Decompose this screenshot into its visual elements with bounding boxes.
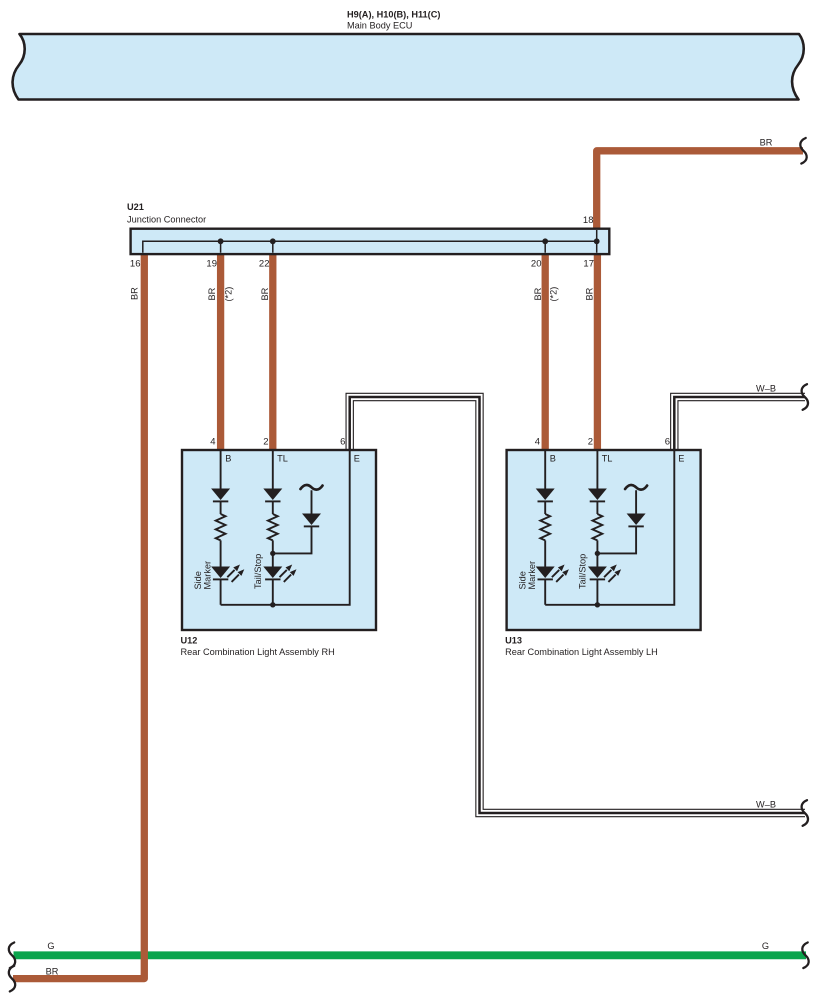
LED TL (tail/stop)	[263, 567, 282, 579]
svg-text:G: G	[762, 941, 769, 951]
node dot TL/stop branch	[270, 551, 275, 556]
wire BR pin 17 to U13 pin 2	[594, 253, 601, 450]
svg-text:2: 2	[263, 437, 268, 448]
junction connector U21 bar	[131, 229, 610, 254]
svg-text:B: B	[225, 454, 231, 464]
svg-text:18: 18	[583, 215, 594, 226]
svg-text:6: 6	[340, 437, 345, 448]
svg-text:BR: BR	[130, 287, 140, 300]
U13 rear combination light assembly LH (copy of circuit)	[507, 437, 701, 631]
svg-text:17: 17	[583, 259, 594, 270]
U21 internal bus	[143, 230, 597, 253]
resistor TL	[268, 514, 278, 540]
svg-text:G: G	[47, 941, 54, 951]
branch E wire and bottom bus	[221, 450, 350, 605]
break symbol BR top right	[800, 138, 806, 164]
break symbol G right	[802, 943, 808, 969]
svg-text:Main Body ECU: Main Body ECU	[347, 21, 412, 31]
svg-text:BR: BR	[46, 967, 59, 977]
wire W-B from U13 pin 6 to right edge	[674, 397, 805, 450]
svg-text:BR: BR	[260, 287, 270, 300]
stop diode branch with tilde	[301, 485, 323, 490]
wire BR pin 19 to U12 pin 4	[217, 253, 224, 450]
svg-text:BR: BR	[533, 287, 543, 300]
svg-text:BR: BR	[207, 287, 217, 300]
branch B wire	[220, 450, 222, 605]
svg-text:(*2): (*2)	[224, 287, 234, 302]
svg-text:(*2): (*2)	[549, 287, 559, 302]
wire BR pin 18 up and right to edge	[597, 151, 803, 229]
svg-text:U12: U12	[181, 636, 198, 646]
svg-text:Rear Combination Light Assembl: Rear Combination Light Assembly RH	[181, 647, 335, 657]
break symbol W-B upper right	[802, 384, 808, 410]
wire G green ground bus	[14, 951, 807, 959]
bus junction dots	[218, 238, 224, 244]
svg-text:BR: BR	[584, 287, 594, 300]
svg-text:E: E	[354, 454, 360, 464]
svg-text:Side: Side	[193, 571, 203, 589]
svg-text:BR: BR	[760, 138, 773, 148]
svg-text:H9(A), H10(B), H11(C): H9(A), H10(B), H11(C)	[347, 10, 440, 20]
break symbol BR bottom left	[9, 966, 15, 992]
svg-text:W–B: W–B	[756, 384, 776, 394]
LED B (side marker)	[211, 567, 230, 579]
resistor B	[216, 514, 226, 540]
svg-text:W–B: W–B	[756, 800, 776, 810]
wire BR pin 16 long run down and to left edge	[13, 253, 144, 979]
diode B	[211, 489, 230, 501]
svg-text:22: 22	[259, 259, 270, 270]
svg-text:Marker: Marker	[202, 561, 212, 590]
svg-text:TL: TL	[277, 454, 288, 464]
svg-text:Junction Connector: Junction Connector	[127, 215, 206, 225]
wire W-B from U12 pin 6 (long route to right edge)	[350, 397, 805, 813]
diode TL	[263, 489, 282, 501]
svg-text:Rear Combination Light Assembl: Rear Combination Light Assembly LH	[505, 647, 658, 657]
svg-text:19: 19	[206, 259, 217, 270]
svg-text:4: 4	[210, 437, 215, 448]
break symbol G left	[9, 943, 15, 969]
wire BR pin 20 to U13 pin 4	[542, 253, 549, 450]
box	[182, 450, 376, 630]
branch TL wire	[272, 450, 274, 605]
Main Body ECU shield band H9/H10/H11	[13, 34, 804, 100]
break symbol W-B lower right	[802, 800, 808, 826]
svg-text:Tail/Stop: Tail/Stop	[253, 554, 263, 589]
svg-text:20: 20	[531, 259, 542, 270]
wire BR pin 22 to U12 pin 2	[269, 253, 276, 450]
rear combination light assembly internal circuit (U12 / reused for U13)	[182, 437, 376, 631]
svg-text:16: 16	[130, 259, 141, 270]
svg-text:U13: U13	[505, 636, 522, 646]
svg-text:U21: U21	[127, 202, 144, 212]
